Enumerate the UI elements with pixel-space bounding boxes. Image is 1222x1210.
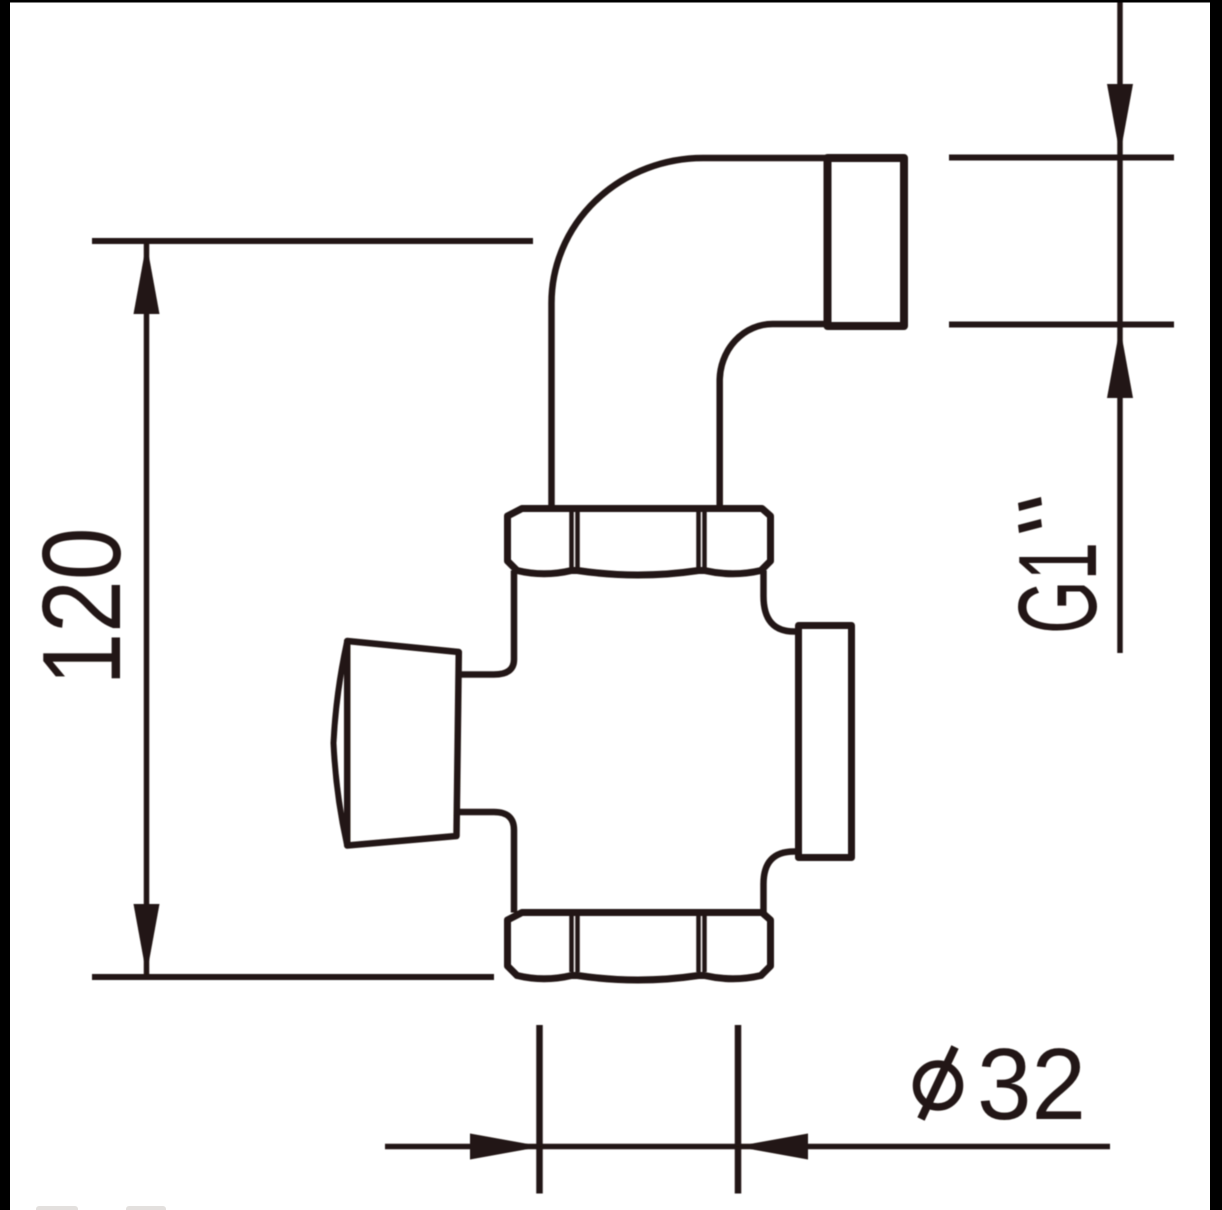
- label G1 inch marks: [1018, 497, 1042, 533]
- valve body right edge upper with outlet fillet: [764, 571, 799, 632]
- handle knob left cone silhouette: [334, 641, 348, 846]
- valve body left edge lower with neck fillet: [459, 812, 514, 913]
- dim phi32 left extension line: [536, 1025, 543, 1194]
- dim G1 lower extension line: [949, 322, 1174, 328]
- handle knob trapezoid: [347, 641, 459, 846]
- border frame left bar: [0, 0, 10, 1210]
- dim G1 upper extension line: [949, 155, 1174, 161]
- right outlet port rectangle: [799, 626, 852, 858]
- valve body left edge upper with neck fillet: [460, 571, 515, 675]
- dim phi32 dimension line middle segment: [540, 1144, 739, 1150]
- dim 120 bottom extension line: [92, 974, 494, 980]
- dim G1 arrowhead down: [1107, 84, 1133, 155]
- dim 120 top extension line: [92, 238, 533, 244]
- dim 120 arrowhead down: [134, 904, 160, 975]
- wire: elbow inner contour: [720, 324, 830, 510]
- dim 120 dimension line: [144, 241, 150, 977]
- border frame top line: [0, 0, 1222, 3]
- svg-text:32: 32: [977, 1029, 1086, 1141]
- dim phi32 right extension line: [735, 1025, 742, 1194]
- svg-text:G1: G1: [996, 542, 1120, 634]
- dim phi32 dimension line left segment: [385, 1144, 540, 1150]
- svg-text:120: 120: [20, 528, 144, 686]
- pipe end cap G1 thread: [828, 158, 905, 326]
- top nut flat edge lines: [572, 512, 705, 568]
- dim G1 arrowhead up: [1107, 327, 1133, 398]
- top union nut outline: [508, 509, 771, 576]
- dim G1 dimension line: [1117, 0, 1123, 653]
- bottom nut flat edge lines: [572, 916, 705, 972]
- dim phi32 dimension line right segment: [738, 1144, 1110, 1150]
- dim phi32 arrowhead left: [736, 1134, 808, 1160]
- wire: elbow outer contour: [552, 158, 831, 510]
- watermark remnant bottom left: [36, 1206, 166, 1210]
- border frame right bar: [1210, 0, 1222, 1210]
- dim phi32 arrowhead right: [470, 1134, 542, 1160]
- valve body right edge lower with outlet fillet: [764, 852, 799, 913]
- bottom union nut outline: [508, 913, 771, 981]
- label phi symbol: [917, 1047, 960, 1119]
- dim 120 arrowhead up: [134, 243, 160, 314]
